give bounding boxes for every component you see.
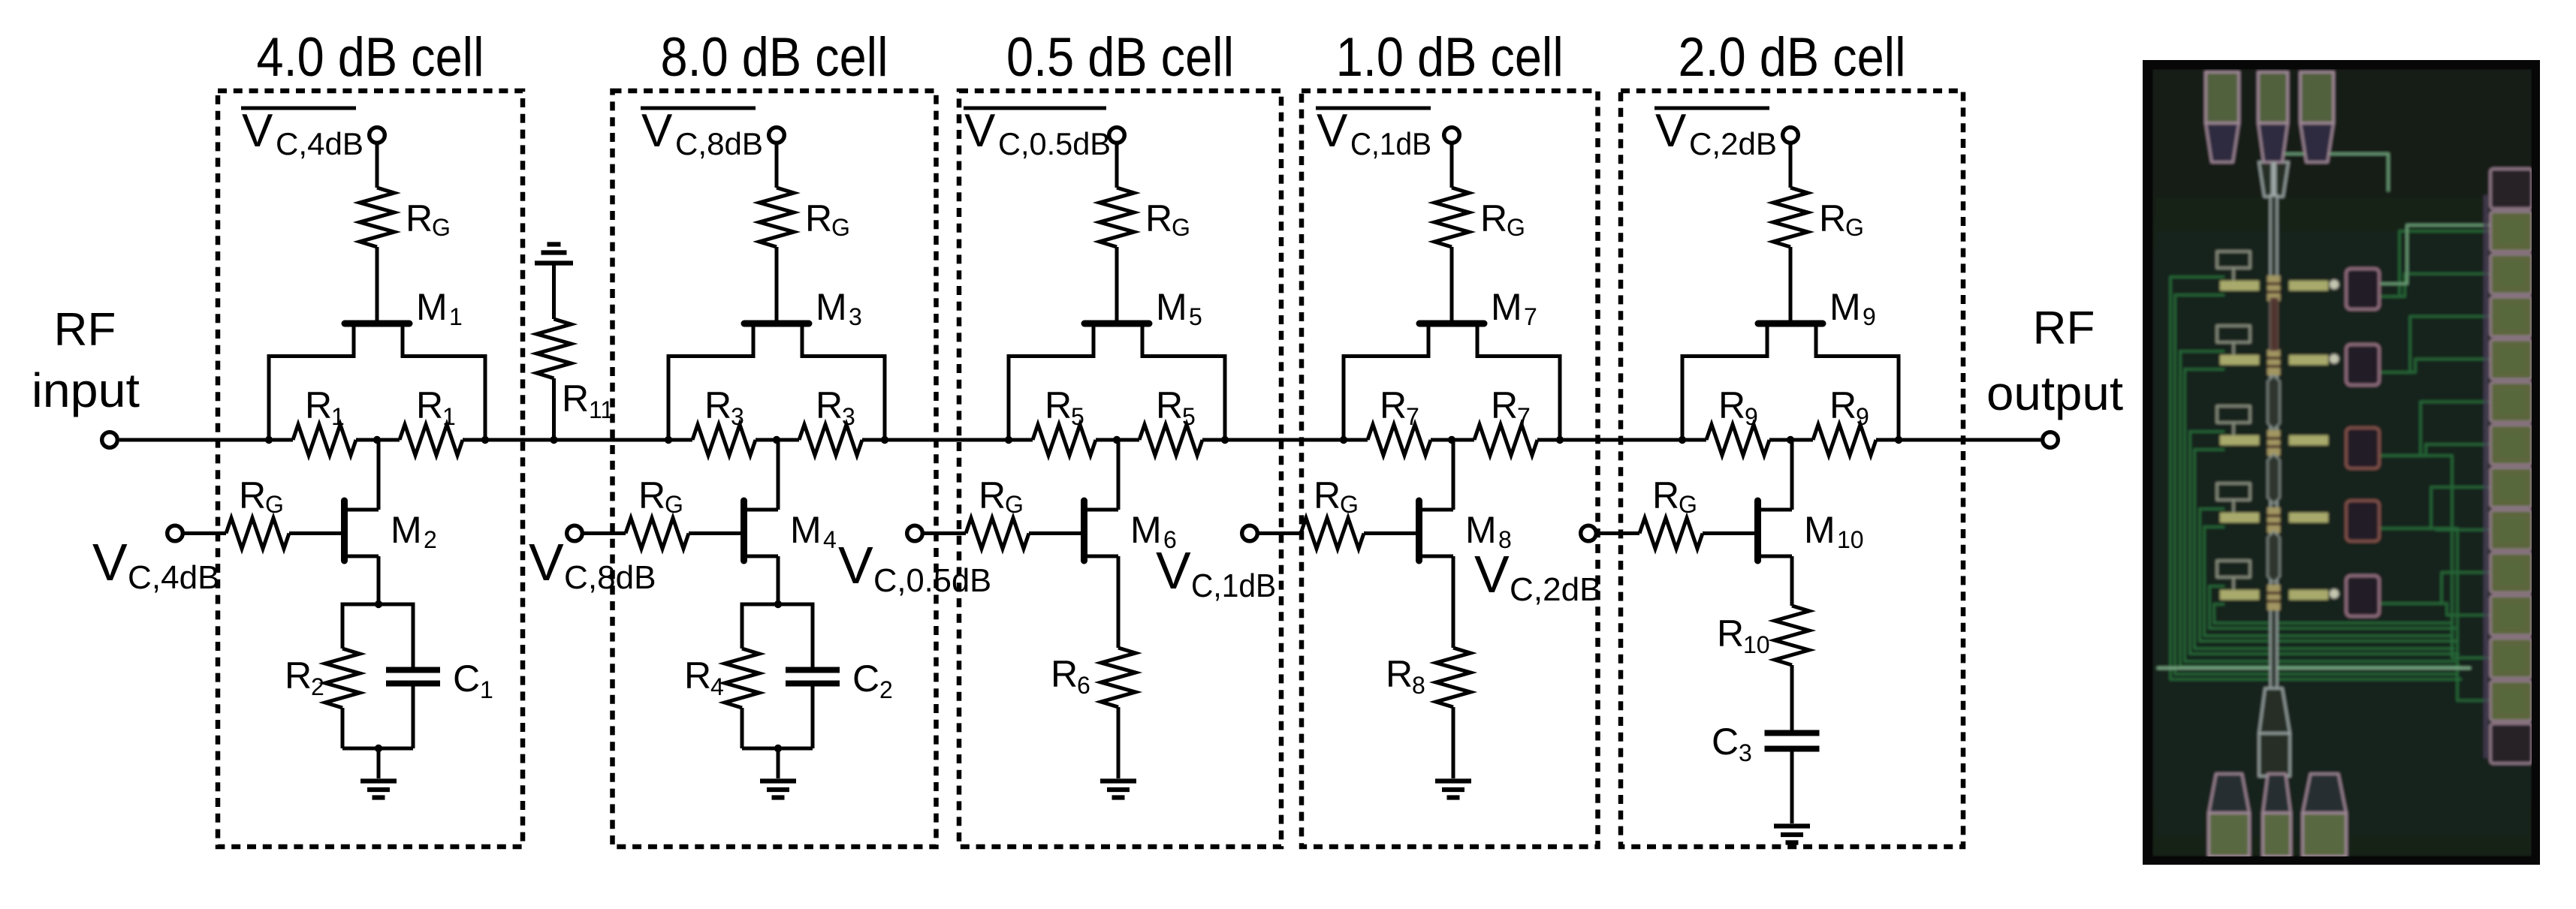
label V_C,0.5dB: [838, 536, 991, 599]
wire: terminal to RG (shunt, cell 4dB): [182, 531, 226, 535]
svg-text:R: R: [805, 197, 832, 239]
node: right junction (cell 1dB): [1556, 436, 1564, 444]
resistor R3 (left series): [692, 425, 756, 456]
wire: M4 source down to RC network: [777, 556, 780, 604]
wire: M8 source down to R8: [1452, 556, 1455, 648]
terminal V_C,0.5dB (shunt control): [907, 525, 923, 541]
svg-text:C,4dB: C,4dB: [128, 559, 220, 596]
photo: tone overlay: [2152, 69, 2532, 856]
transistor M8 (shunt FET): [1419, 501, 1454, 561]
svg-text:R: R: [816, 384, 843, 426]
label R9 (left): [1718, 384, 1758, 430]
wire: C2 upper lead: [811, 603, 815, 668]
ground (cell 4dB): [360, 781, 397, 798]
node Vbar_C,0.5dB (top control, with overline): [964, 105, 1111, 161]
svg-text:V: V: [92, 533, 128, 591]
wire: terminal to RG (cell 4dB): [376, 143, 379, 188]
svg-text:output: output: [1986, 366, 2123, 420]
wire: M10 source down to R10: [1790, 556, 1794, 606]
node Vbar_C,4dB (top control, with overline): [241, 105, 363, 161]
ground (cell 1dB): [1435, 781, 1471, 798]
resistor RG (gate, M6): [966, 518, 1029, 549]
terminal Vbar_C,0.5dB: [1109, 128, 1125, 143]
node: center junction (cell 0.5dB): [1113, 436, 1121, 444]
resistor R9 (right series): [1813, 425, 1876, 456]
node: right junction (cell 8dB): [881, 436, 888, 444]
transistor M10 (shunt FET): [1758, 501, 1793, 561]
node: RC bottom junction (cell 8dB): [774, 745, 782, 752]
svg-text:R: R: [979, 474, 1006, 516]
node: right junction (cell 4dB): [481, 436, 489, 444]
label RG (top, cell 0.5dB): [1145, 197, 1190, 241]
node: RC top junction (cell 8dB): [774, 600, 782, 608]
resistor RG (gate, M4): [626, 518, 689, 549]
label R10: [1717, 613, 1770, 658]
wire: bypass left leg (M1 source down to RF): [267, 354, 271, 440]
svg-text:V: V: [1474, 545, 1510, 603]
terminal V_C,8dB (shunt control): [567, 525, 583, 541]
label C1: [453, 658, 493, 703]
svg-text:11: 11: [589, 396, 614, 423]
resistor R1 (left series): [293, 425, 356, 456]
svg-text:C,1dB: C,1dB: [1350, 126, 1431, 161]
wire: R11 top: [552, 262, 556, 320]
svg-text:5: 5: [1182, 403, 1196, 430]
svg-text:RF: RF: [54, 304, 116, 356]
node: left junction (cell 1dB): [1340, 436, 1347, 444]
svg-text:G: G: [1172, 214, 1190, 241]
resistor RG (gate, M3): [759, 188, 794, 247]
node: RC top junction (cell 4dB): [375, 600, 382, 608]
wire: C2 lower lead: [811, 684, 815, 749]
terminal Vbar_C,1dB: [1444, 128, 1460, 143]
wire: M2 drain up to RF line: [377, 440, 381, 510]
svg-text:R: R: [1380, 384, 1407, 426]
transistor M1 (series FET): [269, 324, 485, 357]
svg-text:input: input: [32, 363, 140, 417]
resistor RG (gate, M9): [1773, 188, 1808, 247]
svg-text:M: M: [1156, 286, 1187, 328]
resistor R7 (right series): [1474, 425, 1537, 456]
wire: M10 drain up to RF line: [1790, 440, 1794, 510]
resistor R1 (right series): [400, 425, 463, 456]
label V_C,4dB: [92, 533, 220, 596]
terminal V_C,4dB (shunt control): [167, 525, 183, 541]
photo: left routing loops: [2170, 277, 2462, 679]
svg-text:C,8dB: C,8dB: [564, 559, 656, 596]
node: R11 junction on RF line: [550, 436, 557, 444]
terminal V_C,1dB (shunt control): [1242, 525, 1258, 541]
resistor R9 (left series): [1706, 425, 1769, 456]
label: RF input: [32, 304, 140, 417]
svg-text:1: 1: [449, 303, 463, 330]
photo: right routing fan: [2379, 231, 2490, 700]
svg-text:R: R: [1718, 384, 1745, 426]
svg-text:G: G: [432, 214, 451, 241]
wire: C1 lower lead: [412, 684, 415, 749]
svg-text:C: C: [1712, 721, 1739, 763]
wire: R11 bottom to RF line: [552, 378, 556, 440]
wire: C3 to ground: [1790, 749, 1794, 824]
capacitor C3: [1765, 733, 1820, 749]
wire: RG to gate of M5: [1115, 247, 1119, 321]
transistor M4 (shunt FET): [744, 501, 779, 561]
wire: bypass left leg (M9 source down to RF): [1681, 354, 1685, 440]
label M5: [1156, 286, 1202, 330]
svg-text:R: R: [416, 384, 443, 426]
resistor R5 (right series): [1139, 425, 1202, 456]
svg-text:R: R: [1386, 653, 1413, 695]
wire: M4 drain up to RF line: [777, 440, 780, 510]
node: left junction (cell 0.5dB): [1005, 436, 1012, 444]
svg-text:1: 1: [480, 676, 493, 703]
label M9: [1829, 286, 1876, 330]
resistor R4: [725, 649, 759, 708]
ground (cell 2dB): [1774, 826, 1810, 843]
svg-text:V: V: [1156, 541, 1191, 600]
svg-text:0.5 dB cell: 0.5 dB cell: [1006, 27, 1234, 88]
label: RF output: [1986, 302, 2123, 420]
resistor R11: [537, 319, 572, 378]
label R5 (left): [1045, 384, 1084, 430]
wire: bypass right leg (M5 drain down to RF): [1223, 354, 1227, 440]
label V_C,8dB: [529, 533, 656, 596]
svg-text:R: R: [1717, 613, 1744, 655]
wire: bypass left leg (M3 source down to RF): [667, 354, 671, 440]
svg-text:G: G: [831, 214, 850, 241]
photo: center column segments: [2270, 298, 2278, 351]
svg-text:C,1dB: C,1dB: [1191, 567, 1276, 604]
label M2: [391, 509, 437, 553]
photo: pad column strip: [2484, 195, 2488, 758]
svg-text:10: 10: [1837, 526, 1864, 553]
wire: terminal to RG (cell 2dB): [1789, 143, 1793, 188]
cell boundary (dashed box) 8.0 dB cell: [613, 91, 937, 847]
node: RC bottom junction (cell 4dB): [375, 745, 382, 752]
svg-text:2.0 dB cell: 2.0 dB cell: [1679, 27, 1906, 88]
node: left junction (cell 4dB): [265, 436, 273, 444]
svg-text:7: 7: [1406, 403, 1419, 430]
svg-text:3: 3: [731, 403, 744, 430]
svg-text:3: 3: [842, 403, 855, 430]
label V_C,2dB: [1474, 545, 1602, 608]
svg-text:R: R: [285, 655, 312, 697]
wire: RG to gate of M7: [1450, 247, 1454, 321]
svg-text:C,4dB: C,4dB: [276, 126, 363, 161]
wire: C1 upper lead: [412, 603, 415, 668]
wire: to ground (cell 8dB): [777, 748, 780, 778]
svg-text:G: G: [1679, 491, 1697, 518]
transistor M3 (series FET): [668, 324, 885, 357]
svg-text:6: 6: [1077, 672, 1090, 699]
label V_C,1dB: [1156, 541, 1276, 604]
ground (cell 0.5dB): [1100, 781, 1136, 798]
node: left junction (cell 8dB): [665, 436, 672, 444]
svg-text:M: M: [790, 509, 822, 551]
svg-text:G: G: [1845, 214, 1864, 241]
resistor RG (gate, M10): [1639, 518, 1703, 549]
svg-text:2: 2: [424, 526, 437, 553]
svg-text:10: 10: [1743, 631, 1770, 658]
svg-text:C,0.5dB: C,0.5dB: [998, 126, 1111, 161]
svg-text:C,2dB: C,2dB: [1510, 571, 1602, 608]
wire: RC bottom rail (cell 4dB): [342, 747, 413, 751]
terminal V_C,2dB (shunt control): [1581, 525, 1597, 541]
wire: M6 drain up to RF line: [1117, 440, 1121, 510]
photo: top bond pads: [2206, 72, 2239, 162]
transistor M9 (series FET): [1682, 324, 1899, 357]
label M10: [1804, 509, 1864, 553]
label M1: [416, 286, 463, 330]
photo: bright bottom bus: [2157, 667, 2471, 670]
resistor RG (gate, M2): [226, 518, 289, 549]
svg-text:G: G: [265, 491, 284, 518]
terminal Vbar_C,2dB: [1783, 128, 1799, 143]
svg-text:9: 9: [1863, 303, 1876, 330]
label R11: [562, 378, 614, 423]
label C2: [852, 658, 893, 703]
svg-text:R: R: [1314, 474, 1341, 516]
svg-text:V: V: [1317, 105, 1348, 157]
node: center junction (cell 4dB): [373, 436, 381, 444]
label M4: [790, 509, 837, 553]
svg-text:R: R: [239, 474, 266, 516]
svg-text:5: 5: [1189, 303, 1202, 330]
wire: terminal to RG (cell 0.5dB): [1115, 143, 1119, 188]
resistor R10: [1775, 606, 1809, 665]
node: right junction (cell 2dB): [1895, 436, 1902, 444]
ground (cell 8dB): [760, 781, 796, 798]
wire: RG to gate of M1: [376, 247, 379, 321]
svg-text:9: 9: [1856, 403, 1869, 430]
svg-text:R: R: [704, 384, 731, 426]
svg-text:M: M: [1491, 286, 1522, 328]
wire: R8 to ground: [1452, 707, 1455, 778]
svg-text:G: G: [1340, 491, 1359, 518]
wire: M2 source down to RC network: [377, 556, 381, 604]
label RG (shunt, cell 2dB): [1652, 474, 1697, 518]
transistor M2 (shunt FET): [345, 501, 379, 561]
svg-text:V: V: [1655, 105, 1687, 157]
wire: M6 source down to R6: [1117, 556, 1121, 648]
svg-text:R: R: [305, 384, 332, 426]
capacitor C2: [786, 670, 840, 684]
svg-text:R: R: [1145, 197, 1172, 239]
photo frame: [2143, 60, 2540, 865]
label RG (top, cell 2dB): [1819, 197, 1864, 241]
resistor R8: [1436, 648, 1470, 707]
photo: MIM capacitors: [2346, 269, 2379, 309]
wire: bypass right leg (M3 drain down to RF): [883, 354, 887, 440]
svg-text:4: 4: [823, 526, 837, 553]
resistor R5 (left series): [1033, 425, 1096, 456]
wire: R6 to ground: [1117, 707, 1121, 778]
label R6: [1051, 653, 1090, 699]
label R5 (right): [1156, 384, 1196, 430]
node: center junction (cell 8dB): [773, 436, 780, 444]
label M6: [1130, 509, 1177, 553]
svg-text:7: 7: [1517, 403, 1531, 430]
resistor R2: [325, 649, 360, 708]
label C3: [1712, 721, 1752, 766]
wire: RC bottom rail (cell 8dB): [742, 747, 813, 751]
wire: main RF signal line: [119, 438, 2041, 442]
label M7: [1491, 286, 1537, 330]
svg-text:C,8dB: C,8dB: [675, 126, 763, 161]
svg-text:8.0 dB cell: 8.0 dB cell: [661, 27, 888, 88]
cell boundary (dashed box) 0.5 dB cell: [959, 91, 1281, 847]
label R7 (left): [1380, 384, 1419, 430]
label RG (shunt, cell 4dB): [239, 474, 284, 518]
svg-text:G: G: [1507, 214, 1525, 241]
node Vbar_C,1dB (top control, with overline): [1316, 105, 1431, 161]
svg-text:1: 1: [442, 403, 456, 430]
ground (inverted, top of R11): [535, 245, 573, 263]
RF input terminal: [102, 432, 118, 448]
wire: RG to gate of M9: [1789, 247, 1793, 321]
node Vbar_C,8dB (top control, with overline): [641, 105, 763, 161]
cell boundary (dashed box) 2.0 dB cell: [1621, 91, 1963, 847]
transistor M5 (series FET): [1009, 324, 1225, 357]
wire: bypass right leg (M1 drain down to RF): [484, 354, 487, 440]
label RG (top, cell 1dB): [1480, 197, 1525, 241]
cell boundary (dashed box) 4.0 dB cell: [218, 91, 523, 847]
svg-text:R: R: [1045, 384, 1072, 426]
wire: terminal to RG (cell 8dB): [775, 143, 779, 188]
node: center junction (cell 1dB): [1448, 436, 1455, 444]
svg-text:3: 3: [1739, 739, 1752, 766]
svg-text:R: R: [1051, 653, 1078, 695]
svg-text:5: 5: [1071, 403, 1084, 430]
svg-text:G: G: [665, 491, 683, 518]
resistor RG (gate, M7): [1434, 188, 1469, 247]
label R2: [285, 655, 324, 700]
svg-text:1.0 dB cell: 1.0 dB cell: [1336, 27, 1564, 88]
label R7 (right): [1491, 384, 1531, 430]
photo: center pad taper (bottom): [2259, 688, 2290, 733]
resistor R3 (right series): [799, 425, 862, 456]
label R1 (right): [416, 384, 456, 430]
svg-text:R: R: [1491, 384, 1518, 426]
label R4: [684, 655, 724, 700]
label R3 (right): [816, 384, 855, 430]
label R8: [1386, 653, 1425, 699]
wire: RC top rail (cell 4dB): [342, 603, 413, 607]
svg-text:M: M: [1804, 509, 1835, 551]
node: right junction (cell 0.5dB): [1221, 436, 1229, 444]
resistor R7 (left series): [1368, 425, 1431, 456]
label RG (top, cell 4dB): [406, 197, 451, 241]
svg-text:V: V: [964, 105, 996, 157]
wire: RG to gate of M4: [689, 531, 744, 535]
label M8: [1465, 509, 1512, 553]
wire: bypass left leg (M5 source down to RF): [1007, 354, 1011, 440]
svg-text:G: G: [1005, 491, 1024, 518]
RF output terminal: [2043, 432, 2059, 448]
label R3 (left): [704, 384, 744, 430]
wire: bypass right leg (M7 drain down to RF): [1558, 354, 1562, 440]
wire: R10 to C3: [1790, 665, 1794, 730]
svg-text:M: M: [816, 286, 847, 328]
wire: RG to gate of M6: [1029, 531, 1084, 535]
svg-text:M: M: [416, 286, 448, 328]
label M3: [816, 286, 862, 330]
wire: RC top rail (cell 8dB): [742, 603, 813, 607]
wire: RG to gate of M10: [1703, 531, 1758, 535]
svg-text:V: V: [242, 105, 273, 157]
svg-text:4: 4: [710, 673, 724, 700]
wire: RG to gate of M8: [1364, 531, 1419, 535]
svg-text:3: 3: [849, 303, 862, 330]
wire: bypass left leg (M7 source down to RF): [1342, 354, 1346, 440]
svg-text:7: 7: [1524, 303, 1537, 330]
svg-text:R: R: [684, 655, 711, 697]
photo: bottom bond pads: [2209, 774, 2249, 856]
label RG (shunt, cell 8dB): [638, 474, 683, 518]
label RG (shunt, cell 1dB): [1314, 474, 1359, 518]
svg-text:R: R: [1156, 384, 1183, 426]
transistor M6 (shunt FET): [1084, 501, 1119, 561]
resistor RG (gate, M8): [1301, 518, 1364, 549]
wire: bypass right leg (M9 drain down to RF): [1897, 354, 1901, 440]
wire: to ground (cell 4dB): [377, 748, 381, 778]
wire: R2 lower lead: [341, 708, 345, 748]
svg-text:C: C: [453, 658, 480, 700]
node: center junction (cell 2dB): [1787, 436, 1794, 444]
wire: terminal to RG (shunt, cell 0.5dB): [922, 531, 966, 535]
svg-text:C,0.5dB: C,0.5dB: [873, 562, 991, 599]
svg-text:R: R: [1829, 384, 1857, 426]
wire: M8 drain up to RF line: [1452, 440, 1455, 510]
svg-text:R: R: [1652, 474, 1679, 516]
svg-text:V: V: [641, 105, 673, 157]
photo background: [2152, 69, 2532, 856]
terminal Vbar_C,4dB: [370, 128, 385, 143]
svg-text:RF: RF: [2033, 302, 2095, 354]
svg-text:9: 9: [1745, 403, 1758, 430]
photo: bright top traces: [2283, 154, 2490, 284]
wire: terminal to RG (shunt, cell 2dB): [1596, 531, 1639, 535]
wire: R4 lower lead: [741, 708, 744, 748]
svg-text:R: R: [406, 197, 433, 239]
svg-text:V: V: [838, 536, 873, 594]
svg-text:M: M: [391, 509, 422, 551]
svg-text:1: 1: [331, 403, 345, 430]
svg-text:M: M: [1829, 286, 1861, 328]
photo: right pad column: [2490, 169, 2532, 209]
capacitor C1: [386, 670, 440, 684]
svg-text:4.0 dB cell: 4.0 dB cell: [257, 27, 484, 88]
wire: terminal to RG (cell 1dB): [1450, 143, 1454, 188]
terminal Vbar_C,8dB: [769, 128, 785, 143]
photo: FET rows: [2217, 251, 2339, 301]
resistor RG (gate, M1): [360, 188, 394, 247]
svg-text:V: V: [529, 533, 564, 591]
svg-text:C,2dB: C,2dB: [1689, 126, 1777, 161]
label RG (top, cell 8dB): [805, 197, 850, 241]
wire: RG to gate of M3: [775, 247, 779, 321]
photo: center vertical line: [2270, 195, 2277, 691]
svg-text:R: R: [1480, 197, 1507, 239]
node Vbar_C,2dB (top control, with overline): [1654, 105, 1777, 161]
resistor R6: [1101, 648, 1136, 707]
wire: terminal to RG (shunt, cell 1dB): [1257, 531, 1301, 535]
wire: RG to gate of M2: [289, 531, 345, 535]
svg-text:2: 2: [879, 676, 893, 703]
svg-text:8: 8: [1412, 672, 1425, 699]
transistor M7 (series FET): [1344, 324, 1560, 357]
svg-text:R: R: [1819, 197, 1846, 239]
